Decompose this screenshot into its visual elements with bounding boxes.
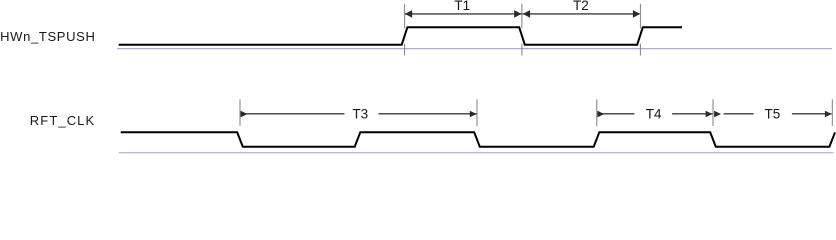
svg-text:T4: T4 — [646, 106, 662, 121]
svg-text:T5: T5 — [765, 106, 781, 121]
svg-text:HWn_TSPUSH: HWn_TSPUSH — [0, 29, 95, 44]
svg-text:T2: T2 — [573, 0, 589, 13]
svg-text:RFT_CLK: RFT_CLK — [30, 113, 96, 128]
svg-text:T1: T1 — [454, 0, 470, 13]
svg-text:T3: T3 — [352, 106, 368, 121]
